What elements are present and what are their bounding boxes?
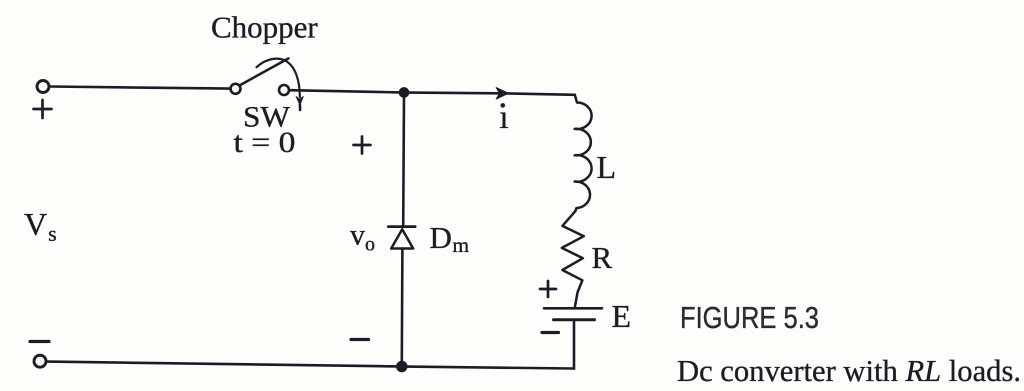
inductor L coil	[575, 95, 592, 211]
svg-text:Dc converter with RL loads.: Dc converter with RL loads.	[677, 353, 1021, 388]
wire: switch to junction node	[289, 90, 400, 92]
svg-text:Dm: Dm	[430, 220, 470, 257]
svg-text:E: E	[612, 298, 632, 334]
switch arc arrowhead (down)	[296, 97, 303, 105]
switch SW blade	[239, 58, 288, 85]
terminal top-left input	[37, 81, 49, 93]
plus sign battery	[540, 288, 556, 291]
svg-text:Chopper: Chopper	[211, 10, 318, 45]
wire bottom rail right: corner to junction	[407, 367, 575, 369]
plus sign source top	[34, 108, 52, 111]
minus sign battery	[542, 331, 559, 334]
switch SW throw circle right	[279, 85, 289, 95]
plus sign output top	[354, 144, 371, 147]
minus sign source bottom	[30, 340, 49, 343]
svg-text:Vs: Vs	[24, 206, 57, 246]
wire: battery to bottom rail	[573, 321, 576, 368]
svg-text:FIGURE 5.3: FIGURE 5.3	[680, 300, 819, 335]
svg-text:R: R	[592, 240, 613, 275]
diode Dm cathode wire to node B	[400, 249, 403, 363]
switch closing motion arc	[257, 59, 300, 97]
battery E positive plate (long)	[544, 307, 602, 310]
wire top rail left: terminal to switch	[49, 87, 230, 89]
node B bottom junction dot	[397, 362, 407, 372]
battery E negative plate (short)	[554, 318, 595, 321]
minus sign output bottom	[351, 338, 369, 341]
svg-text:L: L	[597, 149, 617, 185]
terminal bottom-left input	[34, 355, 46, 367]
diode Dm cathode bar	[388, 225, 415, 228]
arrowhead current i	[496, 88, 508, 99]
node A top junction dot	[399, 88, 408, 97]
wire: arrow to top-right corner	[506, 93, 575, 94]
wire bottom rail left: junction to terminal	[47, 362, 397, 367]
diode Dm triangle	[391, 229, 413, 248]
wire: junction to arrow, load branch	[409, 91, 500, 94]
switch SW pole circle left	[231, 84, 241, 94]
resistor R zigzag	[562, 211, 584, 307]
svg-text:t = 0: t = 0	[234, 126, 296, 159]
diode Dm anode wire from node A	[402, 97, 405, 227]
svg-text:vo: vo	[350, 219, 375, 256]
